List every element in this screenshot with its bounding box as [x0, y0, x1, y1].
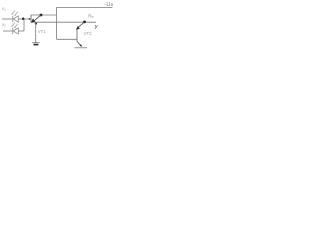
svg-text:VT2: VT2 [84, 31, 92, 36]
svg-text:y: y [94, 24, 98, 30]
junction dot VT2 [83, 21, 86, 24]
ground bar [32, 42, 40, 44]
junction dot ground stem [35, 22, 37, 24]
bottom rail [75, 47, 88, 49]
wire VD2 up to VD1 net [23, 19, 25, 31]
junction dot VT1 [40, 14, 43, 17]
transistor VT2 collector with arrow [77, 41, 81, 45]
svg-text:-Uв: -Uв [104, 2, 114, 8]
wire VD1 to VT1 base [18, 18, 31, 20]
ground bar thick [34, 44, 39, 46]
ground stem [35, 22, 37, 42]
svg-text:x1: x1 [1, 6, 6, 12]
wire y22 right section [57, 21, 97, 23]
junction dot small [29, 18, 31, 20]
wire input x1 [2, 18, 12, 20]
transistor VT2 base bar vertical [76, 29, 78, 41]
light arrows into photodiode VD2 [12, 23, 17, 28]
wire VT1 lower y22 [31, 21, 57, 23]
junction dot [22, 17, 25, 20]
transistor VT1 base bar [30, 15, 32, 22]
wire input x2 [3, 30, 12, 32]
svg-text:Rн: Rн [88, 13, 93, 19]
transistor VT1 emitter with arrow [35, 15, 41, 20]
transistor VT2 emitter with arrow [78, 22, 85, 28]
light arrows into photodiode VD1 [12, 11, 17, 16]
wire vertical x56 [56, 7, 58, 39]
wire VD2 right [18, 30, 24, 32]
supply rail -Us [57, 6, 113, 8]
svg-text:x2: x2 [1, 22, 6, 28]
photodiode VD1 [13, 16, 18, 22]
photodiode VD2 [13, 28, 18, 34]
wire collector top y15 [31, 14, 57, 16]
wire VT2 base link [57, 38, 78, 40]
svg-text:VT1: VT1 [38, 29, 46, 34]
